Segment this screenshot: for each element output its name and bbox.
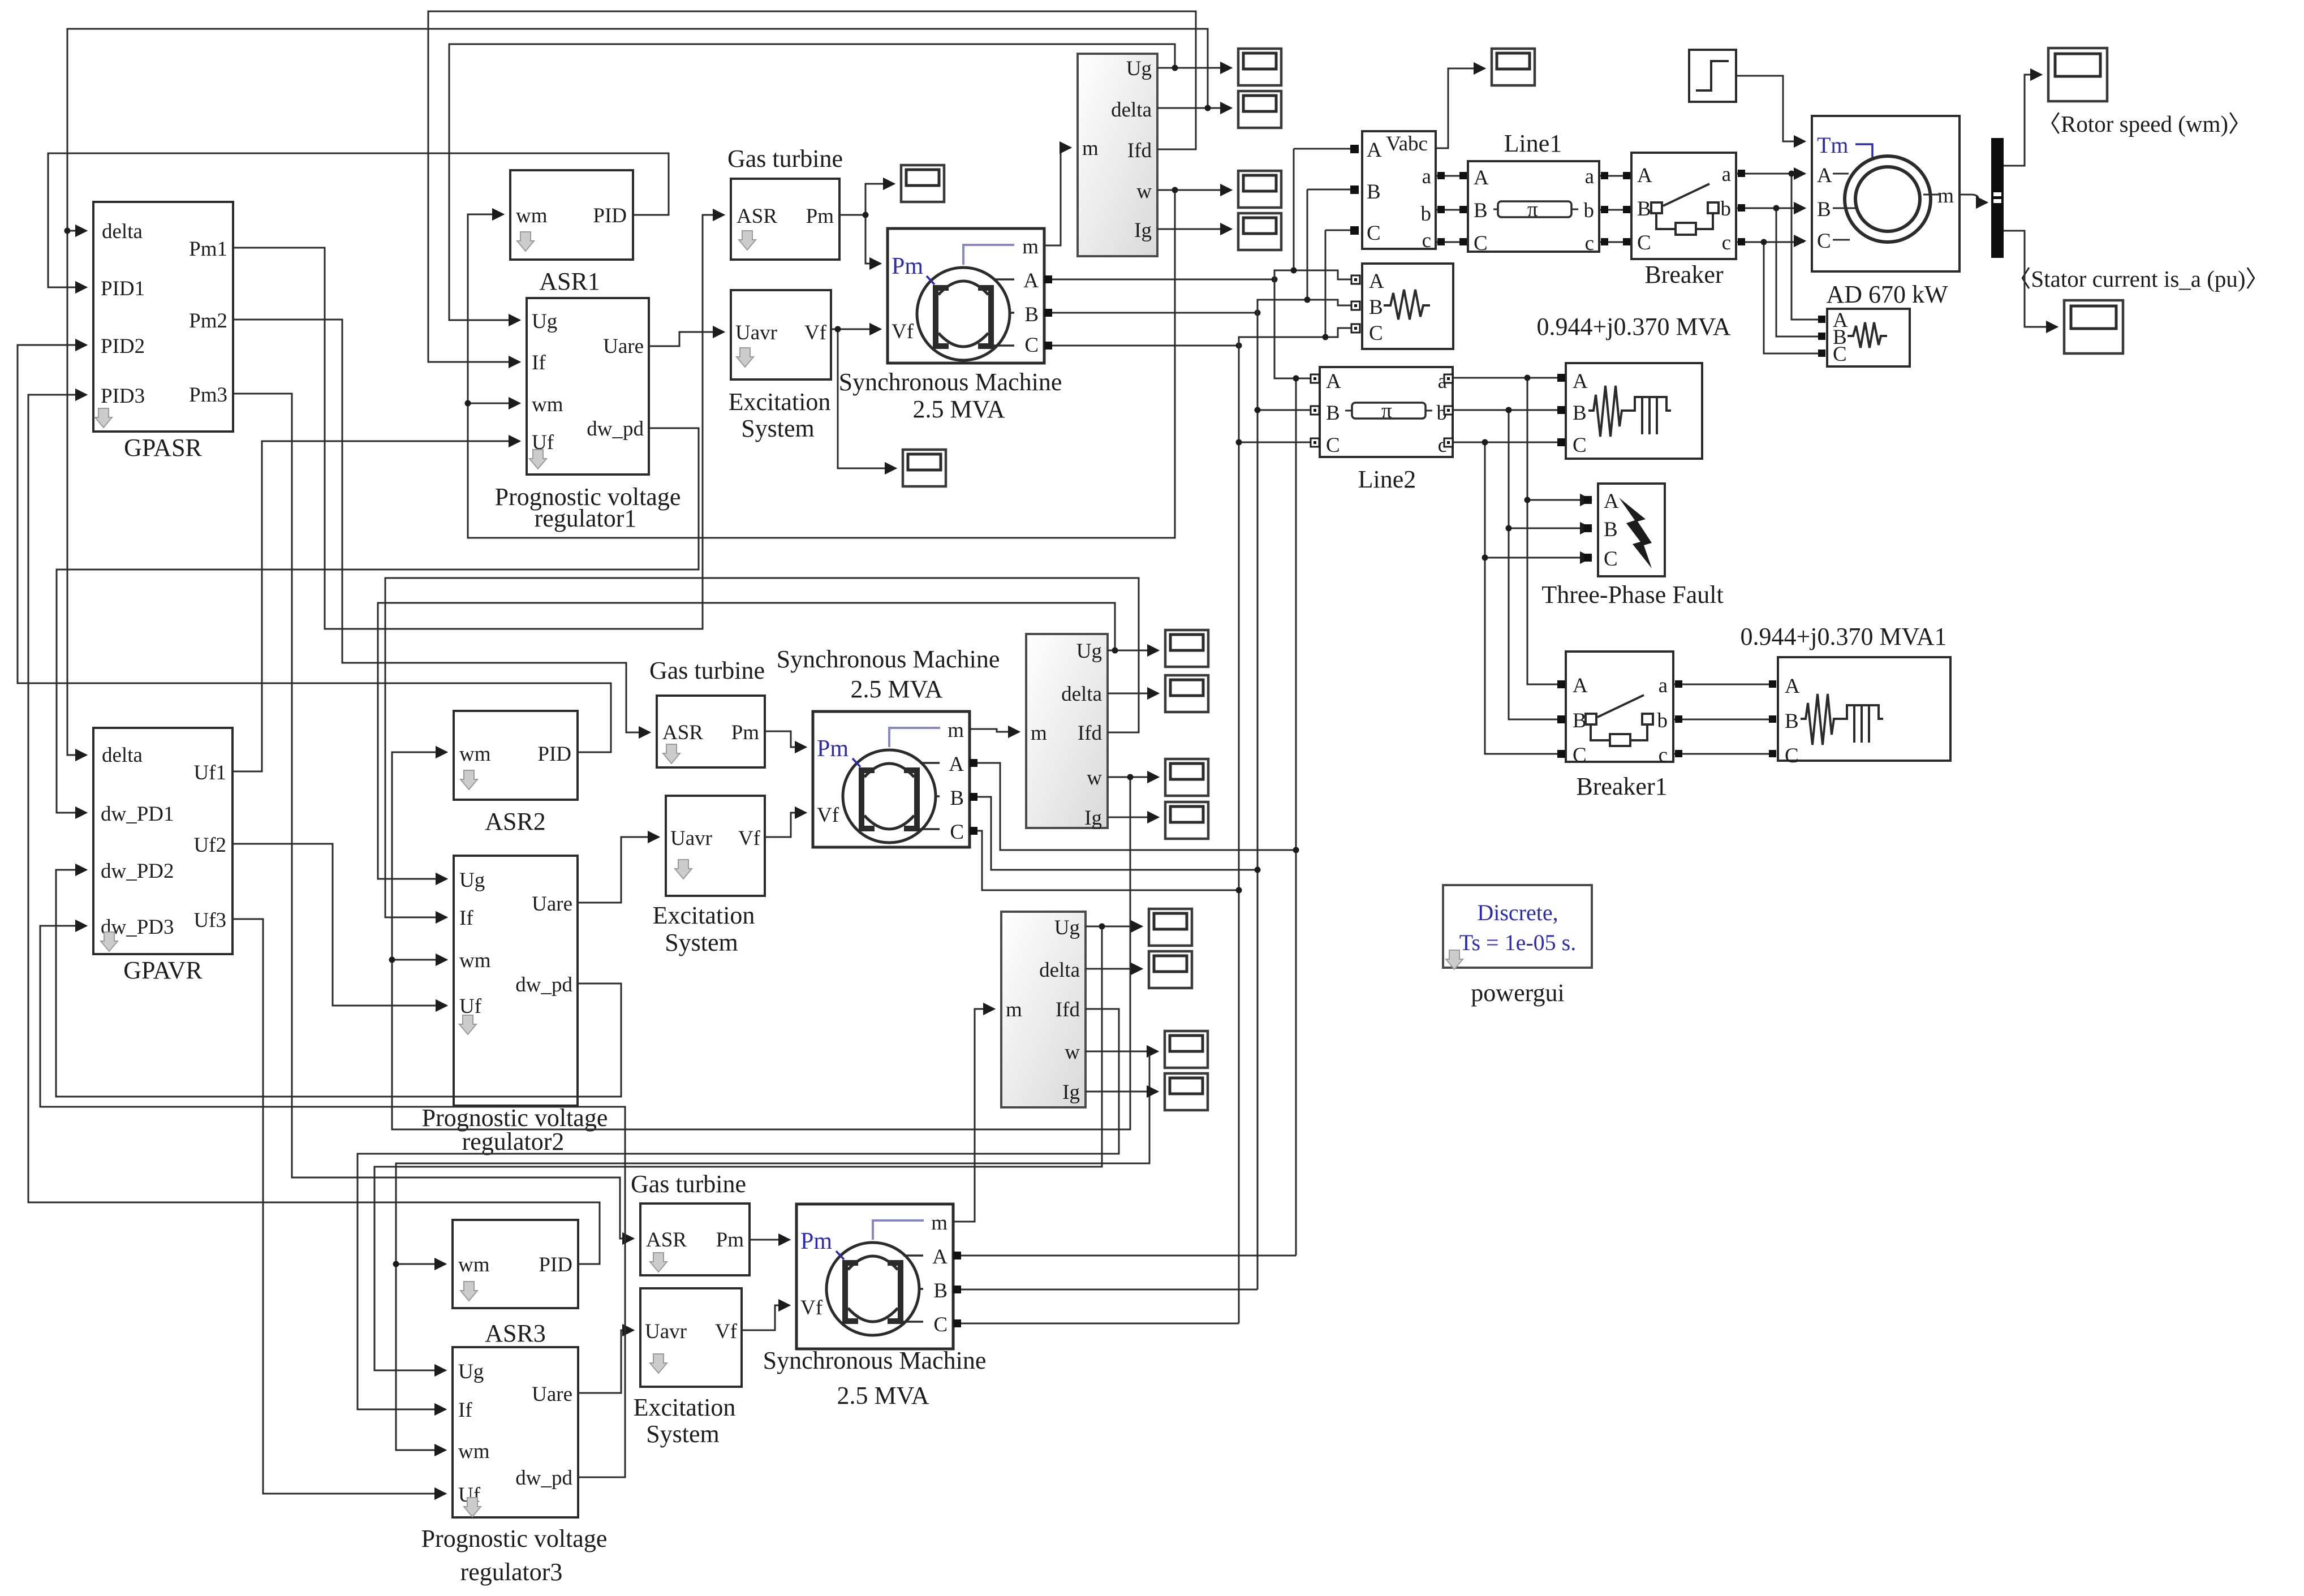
svg-text:regulator2: regulator2 <box>462 1128 565 1155</box>
svg-text:Pm: Pm <box>817 736 849 762</box>
svg-text:A: A <box>1604 490 1619 513</box>
svg-text:Uare: Uare <box>532 892 572 916</box>
Prognostic voltage regulator1 block <box>495 298 681 532</box>
wire Vabc out to scope <box>1436 68 1485 148</box>
Prognostic voltage regulator2 block <box>422 856 608 1155</box>
wire GT2 Pm to SM2 Pm <box>765 731 806 747</box>
wire branch c to RL load C <box>1764 242 1818 353</box>
svg-text:C: C <box>1817 230 1831 253</box>
svg-text:Ig: Ig <box>1062 1081 1080 1104</box>
Excitation System 3 block <box>634 1288 742 1448</box>
svg-text:Gas turbine: Gas turbine <box>631 1170 746 1198</box>
svg-text:wm: wm <box>459 949 491 972</box>
svg-text:A: A <box>1573 674 1588 697</box>
measurement bus block 2 <box>1026 634 1108 830</box>
svg-text:GPAVR: GPAVR <box>123 956 203 984</box>
wire GT1 Pm to SM1 Pm <box>839 215 881 264</box>
GPASR block <box>93 202 233 461</box>
svg-text:dw_pd: dw_pd <box>515 1466 572 1490</box>
wire node c2 down <box>1485 442 1559 754</box>
hollow port inner dots <box>1354 278 1357 281</box>
svg-text:B: B <box>1024 303 1039 326</box>
scope Vabc <box>1492 49 1535 85</box>
scope Pm1 <box>901 165 944 202</box>
svg-text:a: a <box>1422 165 1431 188</box>
svg-text:Three-Phase Fault: Three-Phase Fault <box>1541 581 1723 609</box>
ASR2 block <box>454 711 578 835</box>
wire reg2 Uare to Exc2 Uavr <box>578 837 659 903</box>
svg-text:B: B <box>1326 402 1340 425</box>
wire SM3 B to node B <box>953 1289 1257 1291</box>
svg-text:Ug: Ug <box>532 310 557 333</box>
svg-text:m: m <box>1006 998 1022 1021</box>
scope w3 <box>1165 1031 1208 1068</box>
wire w3 branch to ASR3 wm <box>396 1263 446 1265</box>
Synchronous Machine 3 block <box>763 1204 987 1409</box>
svg-text:Discrete,: Discrete, <box>1477 900 1558 925</box>
measurement bus block 1 <box>1078 54 1157 256</box>
wire SM3 A to node A <box>953 1255 1296 1257</box>
fault input ports <box>1584 496 1592 504</box>
svg-text:PID2: PID2 <box>101 335 145 358</box>
svg-text:Uf: Uf <box>459 995 482 1018</box>
svg-text:wm: wm <box>458 1253 490 1276</box>
svg-text:Uavr: Uavr <box>670 827 712 850</box>
svg-text:AD 670 kW: AD 670 kW <box>1826 281 1948 308</box>
svg-text:Pm: Pm <box>892 253 923 279</box>
wire w1 branch to reg1 wm <box>468 403 520 404</box>
scope Ug1 <box>1238 49 1281 85</box>
svg-text:a: a <box>1722 163 1731 186</box>
Breaker1 block <box>1566 652 1673 800</box>
Line1 output / Breaker input ports <box>1601 172 1608 179</box>
svg-text:2.5 MVA: 2.5 MVA <box>837 1382 929 1409</box>
svg-text:w: w <box>1136 180 1152 203</box>
node C to Line2 C <box>1239 442 1311 443</box>
wire branch b to RL load B <box>1776 208 1818 337</box>
svg-text:m: m <box>948 719 964 742</box>
wire meas3 delta to scope <box>1086 968 1142 970</box>
svg-text:wm: wm <box>516 204 548 227</box>
node A jog to load <box>1274 270 1351 279</box>
wire SM2 A to node A <box>970 763 1296 850</box>
scope w1 <box>1238 171 1281 208</box>
node C bus: SM1 C row <box>1044 345 1239 347</box>
Breaker1 output / MVA1 input ports <box>1675 680 1682 688</box>
svg-text:Uf2: Uf2 <box>193 834 226 857</box>
svg-text:regulator3: regulator3 <box>460 1558 563 1586</box>
wire to fault A <box>1527 499 1591 501</box>
svg-text:b: b <box>1421 202 1432 226</box>
wire to fault C <box>1485 557 1591 559</box>
wire Ug3 loop to reg3 Ug <box>374 926 1102 1370</box>
svg-text:Vabc: Vabc <box>1386 132 1428 156</box>
svg-text:Ifd: Ifd <box>1127 139 1152 162</box>
scope Vf1 <box>903 450 946 486</box>
svg-text:wm: wm <box>532 393 563 416</box>
Vabc measurement block <box>1362 131 1436 252</box>
svg-text:Prognostic voltage: Prognostic voltage <box>421 1525 608 1552</box>
svg-text:If: If <box>532 351 546 374</box>
wire GPAVR Uf1 to reg1 Uf <box>232 441 520 771</box>
wire meas3 w to scope <box>1086 1051 1158 1053</box>
svg-text:Line2: Line2 <box>1358 465 1416 493</box>
svg-text:Line1: Line1 <box>1504 130 1562 157</box>
svg-text:Synchronous Machine: Synchronous Machine <box>839 368 1062 396</box>
svg-text:ASR3: ASR3 <box>485 1319 546 1347</box>
Line1 block <box>1468 130 1599 255</box>
svg-text:C: C <box>1573 744 1587 767</box>
Three-Phase Fault block <box>1541 484 1723 609</box>
wire SM1 m to meas1 m <box>1044 148 1071 245</box>
svg-text:0.944+j0.370 MVA: 0.944+j0.370 MVA <box>1536 313 1730 340</box>
svg-text:Uare: Uare <box>532 1383 572 1406</box>
svg-text:C: C <box>1367 222 1381 245</box>
svg-text:w: w <box>1087 766 1102 790</box>
svg-text:Pm: Pm <box>800 1228 832 1254</box>
SM3 output ports <box>953 1252 961 1259</box>
svg-text:wm: wm <box>459 743 491 766</box>
bus selector bar <box>1991 138 2004 258</box>
svg-text:c: c <box>1422 229 1431 252</box>
svg-text:C: C <box>1326 434 1340 457</box>
svg-text:delta: delta <box>102 744 143 767</box>
svg-text:B: B <box>1637 197 1651 221</box>
svg-text:B: B <box>1785 710 1799 733</box>
wire delta branch to GPASR delta <box>67 230 87 232</box>
svg-text:B: B <box>1367 180 1381 204</box>
wire meas2 Ug to scope <box>1108 650 1159 652</box>
svg-text:wm: wm <box>458 1440 490 1463</box>
svg-text:Uf3: Uf3 <box>193 909 226 932</box>
svg-text:dw_pd: dw_pd <box>587 417 644 441</box>
svg-text:C: C <box>1474 232 1488 255</box>
wire meas3 Ig to scope <box>1086 1091 1158 1093</box>
wire GPASR Pm2 to GT2 ASR <box>233 320 650 732</box>
svg-text:B: B <box>1573 402 1587 425</box>
load 0.944+j0.370 MVA1 (RL) <box>1778 657 1950 767</box>
svg-text:PID: PID <box>539 1253 572 1276</box>
powergui block <box>1443 885 1592 1007</box>
wire GPASR Pm3 to GT3 ASR <box>233 394 634 1239</box>
three-phase RLC load 1 (A B C zigzag) <box>1362 264 1453 349</box>
wire SM2 C to node C <box>970 831 1239 890</box>
svg-text:A: A <box>1637 164 1652 187</box>
scope delta3 <box>1149 951 1192 988</box>
svg-text:System: System <box>741 415 815 442</box>
svg-text:PID3: PID3 <box>101 385 145 408</box>
wire SM2 B to node B <box>970 797 1257 870</box>
wire bus selector to stator scope <box>2004 231 2057 327</box>
svg-text:m: m <box>1022 235 1039 258</box>
svg-text:a: a <box>1585 165 1594 188</box>
svg-text:PID: PID <box>537 743 571 766</box>
svg-text:Ifd: Ifd <box>1056 998 1080 1021</box>
wire Ug loop to reg1 Ug <box>449 44 1175 320</box>
svg-text:regulator1: regulator1 <box>535 504 637 532</box>
svg-text:〈Rotor speed (wm)〉: 〈Rotor speed (wm)〉 <box>2038 111 2251 137</box>
svg-text:A: A <box>1474 166 1489 189</box>
svg-text:0.944+j0.370 MVA1: 0.944+j0.370 MVA1 <box>1740 623 1946 650</box>
wires Vabc abc to Line1 ABC <box>1436 176 1468 242</box>
svg-text:b: b <box>1584 199 1595 222</box>
Gas turbine 2 (ASR-Pm) block <box>649 657 765 767</box>
svg-text:C: C <box>933 1313 948 1336</box>
svg-text:dw_PD2: dw_PD2 <box>101 860 174 883</box>
node A trunk down <box>1295 378 1297 1256</box>
svg-text:m: m <box>1937 184 1954 208</box>
wire meas1 w to scope <box>1157 189 1231 191</box>
node C trunk down <box>1238 337 1240 1323</box>
wires Breaker1 abc to MVA1 load <box>1673 684 1770 754</box>
svg-text:Excitation: Excitation <box>653 901 755 929</box>
svg-text:c: c <box>1659 744 1668 767</box>
Breaker block <box>1631 153 1736 288</box>
ASR3 block <box>453 1220 578 1347</box>
Excitation System 1 block <box>729 290 831 442</box>
svg-text:ASR2: ASR2 <box>485 808 546 835</box>
svg-text:〈Stator current is_a (pu)〉: 〈Stator current is_a (pu)〉 <box>2008 266 2268 292</box>
svg-text:b: b <box>1721 197 1732 221</box>
svg-text:Pm: Pm <box>731 721 760 744</box>
scope delta1 <box>1238 91 1281 128</box>
svg-text:Ts = 1e-05 s.: Ts = 1e-05 s. <box>1459 930 1576 955</box>
wire delta loop to GPAVR delta <box>67 29 1208 755</box>
Synchronous Machine 2 block <box>777 645 1000 847</box>
wires Line1 abc to Breaker ABC <box>1599 176 1631 242</box>
svg-text:C: C <box>1573 434 1587 457</box>
svg-text:Gas turbine: Gas turbine <box>649 657 765 684</box>
svg-text:C: C <box>950 821 964 844</box>
svg-text:ASR: ASR <box>737 205 777 228</box>
measurement bus block 3 <box>1001 912 1086 1107</box>
svg-text:Uavr: Uavr <box>735 321 777 344</box>
wire reg3 Uare to Exc3 Uavr <box>578 1330 634 1393</box>
svg-text:π: π <box>1381 399 1392 422</box>
svg-text:PID: PID <box>593 204 627 227</box>
svg-text:ASR: ASR <box>662 721 703 744</box>
AD 670 kW block <box>1812 116 1960 308</box>
Vabc input ports <box>1350 145 1359 153</box>
scope Ig3 <box>1165 1073 1208 1110</box>
scope stator current <box>2064 300 2123 353</box>
node C jog to load <box>1239 328 1351 346</box>
node A bus: SM1 A row <box>1044 279 1274 281</box>
svg-text:Breaker1: Breaker1 <box>1576 773 1667 800</box>
wire ASR2 PID to GPASR PID2 <box>18 345 611 752</box>
svg-text:A: A <box>932 1245 948 1269</box>
wire meas1 delta to scope <box>1157 107 1231 109</box>
svg-text:delta: delta <box>102 220 143 243</box>
svg-text:Breaker: Breaker <box>1644 261 1724 288</box>
wire node a2 down <box>1527 378 1559 684</box>
wire ASR3 PID to GPASR PID3 <box>28 395 600 1264</box>
svg-text:m: m <box>931 1211 948 1235</box>
Vabc output / Line1 input ports <box>1437 172 1445 179</box>
svg-text:Ifd: Ifd <box>1078 722 1103 745</box>
node A from Vabc A <box>1294 149 1351 270</box>
Line2 output ports (hollow) <box>1444 374 1453 383</box>
svg-text:Pm3: Pm3 <box>189 383 227 407</box>
wire meas2 delta to scope <box>1108 693 1159 695</box>
wire GPAVR Uf3 to reg3 Uf <box>232 919 446 1494</box>
svg-text:Uf1: Uf1 <box>193 761 226 784</box>
svg-text:C: C <box>1637 231 1651 255</box>
wire SM3 C to node C <box>953 1323 1239 1325</box>
wire node b2 down <box>1509 410 1559 719</box>
svg-text:m: m <box>1082 137 1099 160</box>
svg-text:π: π <box>1527 198 1538 221</box>
wire Exc3 Vf to SM3 Vf <box>742 1305 790 1330</box>
scope Ig1 <box>1238 213 1281 250</box>
Gas turbine 3 (ASR-Pm) block <box>631 1170 750 1275</box>
GPAVR block <box>93 728 232 984</box>
wire reg2 dw_pd to GPAVR dw_PD2 <box>56 870 621 1097</box>
svg-text:Synchronous Machine: Synchronous Machine <box>777 645 1000 673</box>
svg-text:Excitation: Excitation <box>634 1394 736 1421</box>
svg-text:Ug: Ug <box>458 1360 484 1383</box>
node B jog to load <box>1257 300 1351 313</box>
wire meas2 w to scope <box>1108 777 1159 778</box>
wire w3 loop to reg3 wm <box>396 1051 1149 1450</box>
wire reg1 dw_pd to GPAVR dw_PD1 <box>57 428 699 813</box>
MVA load input ports <box>1557 374 1565 382</box>
scope rotor speed <box>2048 48 2107 101</box>
svg-text:Vf: Vf <box>892 320 914 343</box>
wire meas1 Ig to scope <box>1157 228 1231 230</box>
wire w1 loop to ASR1 wm <box>468 190 1175 538</box>
Breaker output ports <box>1738 170 1745 177</box>
wire Ug2 loop to reg2 Ug <box>378 603 1115 879</box>
wire Exc2 Vf to SM2 Vf <box>765 813 806 837</box>
Excitation System 2 block <box>653 796 765 956</box>
Synchronous Machine 1 block <box>839 228 1062 423</box>
svg-text:delta: delta <box>1111 98 1152 122</box>
wire meas1 Ug to scope <box>1157 67 1231 69</box>
wire meas2 Ig to scope <box>1108 817 1159 818</box>
svg-text:B: B <box>1573 709 1587 732</box>
node B from Vabc B <box>1307 189 1351 300</box>
svg-text:If: If <box>459 907 473 930</box>
svg-text:B: B <box>933 1279 948 1302</box>
svg-text:2.5 MVA: 2.5 MVA <box>850 675 942 703</box>
wire branch a to RL load A <box>1791 174 1818 320</box>
RLC load1 input ports (hollow) <box>1351 275 1360 284</box>
SM1 output ports <box>1044 275 1052 283</box>
svg-text:Synchronous Machine: Synchronous Machine <box>763 1347 987 1374</box>
svg-text:ASR: ASR <box>646 1228 687 1252</box>
svg-text:B: B <box>950 787 964 810</box>
wire GT3 Pm to SM3 Pm <box>750 1239 790 1241</box>
Line2 block <box>1320 367 1453 493</box>
svg-text:Ig: Ig <box>1134 219 1152 242</box>
svg-text:PID1: PID1 <box>101 277 145 300</box>
svg-text:A: A <box>1785 675 1800 698</box>
svg-text:If: If <box>458 1399 472 1422</box>
wire Exc1 Vf to SM1 Vf <box>831 329 881 330</box>
wires Breaker abc to AD ABC <box>1736 173 1805 175</box>
wires Line2 abc to MVA load / fault / Breaker1 <box>1453 377 1557 379</box>
wire meas2 Ifd loop to reg2 If <box>385 578 1139 917</box>
svg-text:Pm: Pm <box>806 205 834 228</box>
svg-text:Ug: Ug <box>1126 57 1152 80</box>
svg-text:c: c <box>1585 232 1594 255</box>
svg-text:System: System <box>646 1420 720 1448</box>
wire w2 branch to reg2 wm <box>392 959 447 961</box>
Line2 input ports (hollow) <box>1311 374 1319 383</box>
svg-text:Pm: Pm <box>716 1228 744 1252</box>
svg-text:System: System <box>665 929 738 956</box>
node B bus: SM1 B row <box>1044 312 1257 314</box>
svg-text:Uavr: Uavr <box>645 1320 687 1343</box>
wire SM2 m to meas2 m <box>970 729 1019 732</box>
wire meas3 Ifd loop to reg3 If <box>358 1009 1119 1409</box>
svg-text:Ig: Ig <box>1084 806 1102 830</box>
wire meas1 Ifd loop to reg1 If <box>428 11 1196 362</box>
svg-text:m: m <box>1031 722 1047 745</box>
wire bus selector to rotor scope <box>2004 75 2042 166</box>
svg-text:A: A <box>1326 370 1341 393</box>
wire GPAVR Uf2 to reg2 Uf <box>232 844 447 1006</box>
svg-text:w: w <box>1065 1041 1080 1064</box>
svg-text:B: B <box>1474 199 1488 222</box>
svg-text:C: C <box>1369 322 1383 345</box>
svg-text:Vf: Vf <box>817 804 839 827</box>
svg-text:Ug: Ug <box>1076 640 1102 663</box>
scope Ug2 <box>1165 630 1208 667</box>
svg-text:dw_PD1: dw_PD1 <box>101 803 174 826</box>
Gas turbine 1 (ASR-Pm) block <box>727 145 843 260</box>
load 0.944+j0.370 MVA (RL) <box>1566 363 1702 459</box>
svg-text:C: C <box>1604 547 1618 571</box>
svg-text:delta: delta <box>1039 959 1080 982</box>
node B to Line2 B <box>1257 409 1311 411</box>
svg-text:ASR1: ASR1 <box>539 268 600 295</box>
svg-text:Excitation: Excitation <box>729 388 831 416</box>
svg-text:B: B <box>1369 296 1383 319</box>
svg-text:Pm1: Pm1 <box>189 238 227 261</box>
three-phase RL load right (A B C zigzag) <box>1827 309 1910 366</box>
svg-text:a: a <box>1659 674 1668 697</box>
scope w2 <box>1165 759 1208 796</box>
RL load right input ports <box>1818 316 1825 323</box>
svg-text:delta: delta <box>1061 683 1102 706</box>
svg-text:Ug: Ug <box>1054 916 1080 939</box>
svg-text:C: C <box>1833 343 1847 366</box>
wire GPASR Pm1 to GT1 ASR <box>233 215 724 629</box>
svg-text:GPASR: GPASR <box>124 434 202 461</box>
svg-text:Gas turbine: Gas turbine <box>727 145 843 172</box>
svg-text:powergui: powergui <box>1471 979 1564 1007</box>
svg-text:A: A <box>949 753 964 776</box>
wire SM3 m to meas3 m <box>953 1009 994 1222</box>
node A trunk to Line2 A <box>1274 270 1311 378</box>
svg-text:c: c <box>1722 231 1731 255</box>
wire reg1 Uare to Exc1 Uavr <box>649 332 724 346</box>
svg-text:Pm2: Pm2 <box>189 309 227 333</box>
ASR1 block <box>510 170 633 295</box>
Prognostic voltage regulator3 block <box>421 1347 608 1586</box>
scope Ug3 <box>1149 909 1192 946</box>
svg-text:dw_pd: dw_pd <box>515 973 572 997</box>
svg-text:2.5 MVA: 2.5 MVA <box>912 395 1005 423</box>
wire w2 loop to ASR2 wm <box>392 752 1130 1129</box>
Step block <box>1689 50 1736 102</box>
svg-text:A: A <box>1023 269 1039 292</box>
svg-text:b: b <box>1657 709 1668 732</box>
wire junction to scope Pm1 <box>865 184 894 215</box>
wire AD m to bus selector <box>1960 195 1987 202</box>
